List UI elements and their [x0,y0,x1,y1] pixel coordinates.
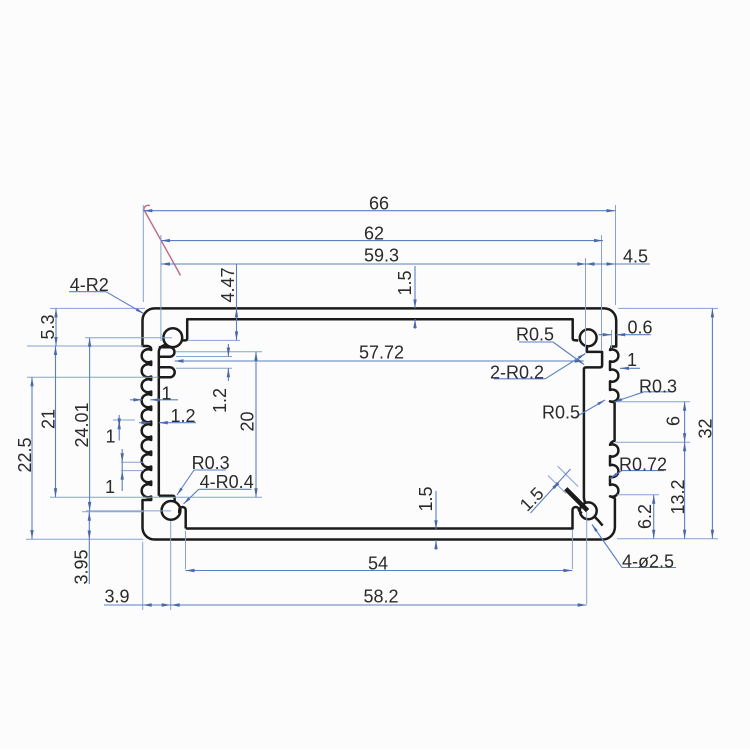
dim 1 right wall [620,367,640,369]
svg-text:R0.72: R0.72 [619,455,667,475]
PCB rib upper [159,347,175,357]
svg-text:6: 6 [664,416,684,426]
dim 4.47 [236,264,238,340]
PCB rib lower [159,367,175,377]
svg-text:R0.3: R0.3 [192,453,230,473]
outer contour with cooling fins [142,308,619,539]
dim 1.2 rib gap [227,344,229,357]
label 4-R2 [69,291,106,293]
screw boss top-right [580,329,597,346]
label R0.5 top [519,341,553,343]
dim 59.3 [161,263,586,265]
svg-text:24.01: 24.01 [72,402,92,447]
bottom-right boss 45deg slot mark [566,489,588,511]
svg-text:54: 54 [368,554,388,574]
svg-text:R0.5: R0.5 [516,325,554,345]
extension lines [142,205,144,302]
label R0.5 middle [575,400,605,418]
svg-text:4-R0.4: 4-R0.4 [200,472,254,492]
svg-text:21: 21 [39,409,59,429]
dim 1 fin pitch lower [121,449,123,491]
dim 1.2 wall thickness [139,422,150,424]
svg-text:1.5: 1.5 [395,270,415,295]
left inner wall [159,496,175,503]
dim 3.95 [88,512,90,584]
dim 22.5 [31,377,33,539]
label R0.3 right [644,391,673,393]
bottom inner wall with step [186,507,582,529]
pink scan artifact [144,205,181,275]
dim 5.3 [55,308,57,346]
svg-text:R0.3: R0.3 [639,377,677,397]
dim 4.5 [586,263,651,265]
svg-text:62: 62 [364,223,384,243]
dim 66 overall width [143,210,615,212]
dim 0.6 [599,334,612,336]
svg-text:59.3: 59.3 [364,246,399,266]
svg-text:4.47: 4.47 [218,267,238,302]
inner top wall with lid groove steps [182,319,579,340]
screw boss bottom-left [162,501,181,520]
svg-text:3.9: 3.9 [104,587,129,607]
svg-text:1.2: 1.2 [210,388,230,413]
label R0.3 left [194,469,226,471]
dim 21 [55,346,57,497]
dim 24.01 [89,338,91,511]
dim 1 fin pitch upper [118,415,120,441]
dim 1.5 top wall [414,266,416,308]
svg-text:58.2: 58.2 [363,587,398,607]
svg-text:4-ø2.5: 4-ø2.5 [622,552,674,572]
svg-text:3.95: 3.95 [72,549,92,584]
svg-text:R0.5: R0.5 [542,403,580,423]
dim 1.5 diagonal slot width [531,469,571,513]
label 2-R0.2 [494,378,545,380]
svg-text:2-R0.2: 2-R0.2 [490,363,544,383]
dim 6.2 [653,495,655,539]
dim 20 [255,352,257,498]
dim 58.2 [171,604,587,606]
svg-text:5.3: 5.3 [38,314,58,339]
svg-text:6.2: 6.2 [635,504,655,529]
screw boss bottom-right [580,502,597,519]
svg-text:57.72: 57.72 [359,343,404,363]
svg-text:4.5: 4.5 [623,247,648,267]
dim 1.5 bottom wall [435,491,437,529]
dim 62 [161,240,603,242]
svg-text:22.5: 22.5 [15,437,35,472]
dim 57.72 [175,360,584,362]
svg-text:1: 1 [105,427,115,447]
dim 13.2 [684,442,686,539]
label 4-dia2.5 [592,525,622,568]
label R0.72 [622,470,664,472]
bottom-left boss prong [179,507,186,529]
svg-text:1.2: 1.2 [170,406,195,426]
svg-text:20: 20 [237,411,257,431]
svg-text:1.5: 1.5 [516,483,548,515]
svg-text:32: 32 [696,418,716,438]
svg-text:1.5: 1.5 [416,486,436,511]
screw boss top-left [163,328,182,347]
dim 6 [684,402,686,443]
dim 54 [186,570,573,572]
dim 1 fin height [130,399,142,401]
right inner wall and PCB pocket [584,347,602,503]
svg-text:1: 1 [105,477,115,497]
bottom-right inner corner fillet [595,517,603,526]
svg-text:1: 1 [627,350,637,370]
dim 32 [711,308,713,538]
svg-text:0.6: 0.6 [627,318,652,338]
svg-text:66: 66 [369,194,389,214]
dim 3.9 [104,604,171,606]
svg-text:1: 1 [161,384,171,404]
svg-text:13.2: 13.2 [668,479,688,514]
label 4-R0.4 [199,488,252,490]
svg-text:4-R2: 4-R2 [70,275,109,295]
